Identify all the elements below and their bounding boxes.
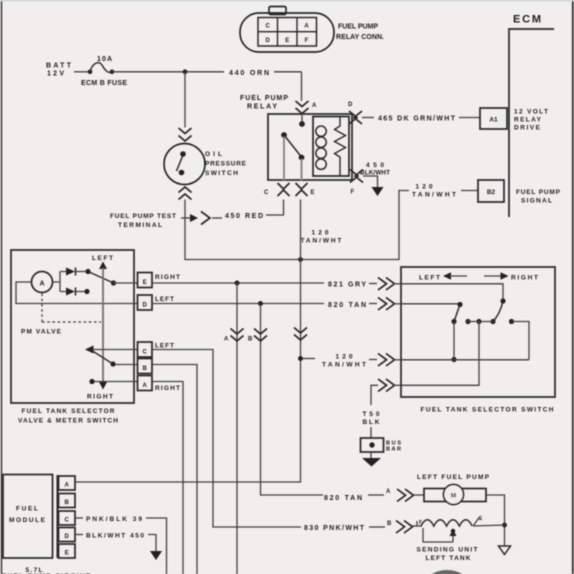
svg-text:RIGHT: RIGHT [155, 385, 180, 392]
svg-text:FUEL PUMP: FUEL PUMP [338, 24, 378, 31]
wire pin A down (right sender) [152, 382, 183, 574]
svg-text:FUEL PUMP TEST: FUEL PUMP TEST [110, 213, 176, 220]
svg-text:120: 120 [336, 354, 353, 361]
svg-text:OIL: OIL [205, 151, 222, 158]
svg-text:120: 120 [312, 230, 329, 237]
node 120 to selector switch [298, 356, 303, 361]
switch wire 820 internal [401, 303, 460, 305]
switch wire 821 internal [401, 284, 503, 300]
svg-text:RELAY: RELAY [514, 117, 542, 124]
switch pivot node [500, 298, 505, 303]
selector axis line [102, 268, 104, 382]
fuel tank selector switch box [401, 267, 555, 397]
connector A inline [231, 329, 244, 342]
wire valve loop to pin D [16, 282, 137, 304]
svg-text:F: F [351, 190, 355, 196]
svg-text:E: E [143, 280, 147, 286]
ECM pin A1 box [480, 108, 507, 129]
connector 820 at switch box [378, 298, 401, 311]
wire ops to 120 tan/wht run [185, 191, 409, 260]
svg-text:C: C [264, 190, 269, 196]
terminal arrow [181, 217, 192, 219]
connector at relay pin F [350, 170, 363, 183]
svg-text:B: B [387, 521, 392, 527]
node diode top contact [85, 269, 90, 274]
wire 120 to selector switch [303, 358, 315, 360]
svg-text:A: A [39, 281, 44, 288]
svg-text:PRESSURE: PRESSURE [205, 161, 247, 168]
wire T50 BLK down [371, 385, 378, 405]
meter switch blade upper [88, 272, 114, 284]
wire 820 TAN from pin D [152, 303, 324, 305]
svg-text:VALVE & METER SWITCH: VALVE & METER SWITCH [18, 418, 118, 425]
page left border line [1, 0, 3, 574]
connector sender [396, 521, 413, 534]
svg-text:LEFT FUEL PUMP: LEFT FUEL PUMP [417, 474, 490, 481]
diode CR1 [66, 268, 86, 276]
svg-text:FUEL TANK SELECTOR SWITCH: FUEL TANK SELECTOR SWITCH [421, 407, 554, 414]
ECM pin B2 box [478, 180, 504, 202]
wire pin A internal [89, 379, 137, 384]
node at center line crossing [298, 257, 303, 262]
arrow right [484, 272, 509, 280]
relay pin A stub + node [301, 114, 303, 124]
svg-text:RIGHT: RIGHT [511, 275, 538, 282]
ECM boundary line [509, 29, 554, 217]
wire pin F to ground [363, 176, 378, 187]
svg-text:SIGNAL: SIGNAL [521, 198, 552, 205]
svg-text:C: C [266, 24, 271, 30]
ground (relay pin F) [372, 187, 384, 196]
svg-text:PNK/BLK 39: PNK/BLK 39 [86, 516, 142, 523]
terminal connector half [201, 212, 210, 225]
relay switch blade [284, 135, 302, 157]
right fuel pump partial circle [428, 570, 467, 574]
connector 821 at switch box [378, 278, 401, 291]
svg-text:PM VALVE: PM VALVE [21, 329, 62, 336]
connector B inline [254, 329, 267, 342]
svg-text:A: A [312, 103, 317, 109]
wire oil pressure switch feed [184, 72, 186, 128]
wire pin B down [152, 365, 197, 574]
wire elbow down to relay pin A [301, 72, 303, 101]
wire pin C internal with arrow [85, 346, 137, 354]
svg-text:450: 450 [366, 162, 384, 169]
svg-text:A: A [65, 483, 70, 489]
svg-text:A: A [224, 337, 229, 343]
svg-text:LEFT: LEFT [92, 255, 113, 262]
relay resistor [335, 117, 346, 177]
svg-text:A1: A1 [489, 117, 498, 124]
connector 120 at switch box [378, 354, 401, 367]
connector at relay pin C [278, 183, 290, 196]
svg-text:B: B [248, 337, 253, 343]
wire pump to ground [486, 495, 505, 546]
wire into B2 [461, 190, 478, 192]
selector axis arrow down [99, 382, 107, 390]
svg-text:DRIVE: DRIVE [514, 125, 541, 132]
svg-text:FUEL PUMP: FUEL PUMP [240, 95, 288, 102]
connector T50 at switch box [378, 379, 401, 392]
svg-text:RELAY CONN.: RELAY CONN. [336, 34, 384, 41]
ground (bus bar) [362, 452, 381, 467]
svg-text:RELAY: RELAY [247, 104, 277, 111]
connector pump [397, 489, 414, 502]
pin A box (valve) [138, 376, 153, 391]
wire pin D BLK/WHT 450 [75, 533, 156, 552]
svg-text:LEFT TANK: LEFT TANK [426, 555, 471, 562]
svg-text:BLK: BLK [363, 419, 380, 426]
PM valve dashed linkage [42, 294, 101, 323]
node junction batt/oil-pressure-switch [183, 69, 188, 74]
fuel tank selector valve & meter switch box [11, 250, 134, 403]
svg-text:RIGHT: RIGHT [87, 394, 113, 401]
svg-text:821 GRY: 821 GRY [328, 282, 366, 289]
fuel module box [3, 475, 53, 559]
svg-text:RIGHT: RIGHT [155, 274, 180, 281]
valve motor A [32, 272, 53, 293]
svg-text:E: E [311, 190, 315, 196]
svg-text:FUEL PUMP: FUEL PUMP [516, 189, 561, 196]
svg-text:120: 120 [416, 184, 433, 191]
svg-text:A: A [304, 24, 309, 30]
pin E box (module) [59, 544, 76, 558]
svg-text:C: C [65, 518, 70, 524]
connector at relay pin A [296, 101, 309, 114]
svg-text:LEFT: LEFT [155, 296, 174, 303]
pin E box (valve) [138, 273, 153, 288]
svg-text:T50: T50 [363, 411, 380, 418]
pin B box (module) [59, 494, 76, 508]
page right border line [572, 0, 574, 574]
svg-text:FUEL TANK SELECTOR: FUEL TANK SELECTOR [22, 408, 115, 415]
svg-text:D: D [143, 303, 148, 309]
sending unit resistor [413, 516, 505, 526]
page top border line [0, 0, 574, 2]
meter switch blade lower [91, 350, 137, 367]
svg-text:E: E [285, 38, 289, 44]
svg-text:D: D [348, 102, 353, 108]
svg-text:ECM: ECM [513, 14, 541, 26]
selector axis arrow up [99, 262, 107, 270]
wire relay pin E internal [301, 159, 303, 180]
svg-text:B: B [65, 500, 70, 506]
relay coil inner box [313, 117, 349, 177]
wire 440 ORN horizontal [112, 71, 224, 73]
switch wire T50 internal [401, 322, 479, 386]
wire elbow up to relay pin C [277, 200, 284, 216]
svg-text:465 DK GRN/WHT: 465 DK GRN/WHT [378, 116, 456, 123]
svg-text:D: D [266, 38, 271, 44]
svg-text:BLK/WHT 450: BLK/WHT 450 [86, 533, 144, 540]
svg-text:F: F [305, 38, 309, 44]
wire relay pin E down center [75, 200, 301, 483]
svg-text:C: C [143, 350, 148, 356]
svg-text:E: E [65, 551, 69, 557]
svg-text:A: A [386, 489, 391, 495]
wire batt to fuse [74, 71, 89, 73]
wire pin C PNK/BLK 39 [75, 516, 167, 574]
wire into bus bar [370, 427, 372, 438]
pin D box (module) [59, 528, 76, 542]
fuel module pin rail [57, 475, 59, 558]
wire pin C down (830 left sender) [152, 350, 301, 528]
svg-text:M: M [451, 493, 456, 500]
fuse ECM B 10A [88, 63, 115, 74]
wire 450 RED [212, 217, 222, 219]
switch blade 821 [493, 301, 503, 322]
switch wire 120 internal [401, 359, 529, 361]
svg-text:TERMINAL: TERMINAL [118, 222, 162, 229]
svg-text:SENDING UNIT: SENDING UNIT [417, 547, 478, 554]
wire contact to 120 node [453, 322, 455, 360]
switch blade 820 [454, 305, 460, 322]
svg-text:B2: B2 [487, 189, 496, 196]
wire 465 to ECM A1 [362, 117, 374, 119]
wire valve to diodes [53, 272, 67, 292]
relay U1 box [268, 114, 352, 180]
wire 821 branch down (right pump) [236, 283, 238, 574]
wire right contact loop [512, 322, 530, 360]
svg-text:LEFT: LEFT [419, 275, 440, 282]
contact nodes row [451, 319, 514, 324]
svg-text:10A: 10A [97, 56, 112, 63]
arrow left [443, 272, 467, 280]
diode CR2 [66, 288, 85, 296]
relay switch contact node [281, 132, 287, 138]
svg-text:BAR: BAR [386, 447, 401, 453]
pin D box (valve) [138, 295, 153, 310]
connector at relay pin E [296, 183, 308, 196]
bus bar junction block [361, 438, 384, 452]
node diode bottom contact [84, 289, 89, 294]
sender wiper arm [423, 528, 457, 542]
wire 820 branch down (left pump) [261, 304, 324, 496]
svg-text:440 ORN: 440 ORN [229, 70, 269, 77]
ground (fuel module) [150, 551, 162, 560]
fuel pump relay connector body [240, 7, 334, 53]
pin B box (valve) [138, 359, 153, 374]
svg-text:12V: 12V [47, 71, 64, 78]
svg-text:LEFT: LEFT [155, 343, 174, 350]
relay coil [316, 126, 326, 169]
left fuel pump motor [424, 485, 486, 505]
svg-text:A: A [143, 383, 148, 389]
wire 821 GRY from pin E [152, 282, 324, 284]
svg-text:ECM B FUSE: ECM B FUSE [81, 80, 127, 87]
svg-text:B: B [143, 366, 148, 372]
connector inline center 120 wire [294, 328, 307, 341]
pin C box (valve) [138, 342, 153, 357]
pin C box (module) [59, 511, 76, 525]
connector above oil pressure switch [179, 128, 192, 141]
oil pressure switch [164, 144, 205, 185]
svg-text:D: D [65, 534, 70, 540]
wire relay pin C internal [283, 137, 285, 180]
pin A box (module) [59, 476, 76, 490]
connector below oil pressure switch [179, 187, 192, 200]
ground (left fuel pump) [499, 546, 511, 555]
svg-text:SWITCH: SWITCH [205, 170, 238, 177]
connector at relay pin D [349, 111, 362, 124]
